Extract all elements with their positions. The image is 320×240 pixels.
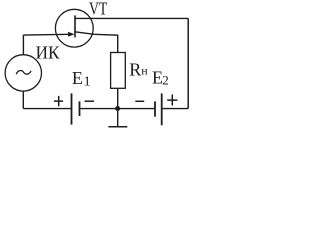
- wire: gate lead from ИК node to VT gate: [23, 33, 69, 36]
- wire: bottom rail left segment: [23, 108, 70, 110]
- wire: bottom rail right segment: [163, 108, 189, 110]
- gate arrowhead: [68, 32, 74, 37]
- ground lead: [117, 109, 119, 127]
- battery E2 long positive plate: [161, 93, 163, 125]
- svg-text:R: R: [129, 60, 141, 80]
- transistor VT drain wire / top rail: [75, 17, 188, 19]
- svg-text:VT: VT: [89, 0, 107, 18]
- wire: bottom rail middle segment: [80, 108, 154, 110]
- wire: left branch upper (gate corner down to source top): [22, 35, 24, 55]
- AC source tilde: [16, 71, 31, 75]
- transistor VT channel bar: [74, 15, 76, 37]
- wire: left branch lower (source bottom to bottom rail): [22, 91, 24, 109]
- plus sign of E2: [167, 95, 177, 106]
- wire: right rail: [187, 18, 189, 108]
- battery E1 short negative plate: [79, 101, 81, 116]
- plus sign of E1: [54, 96, 63, 106]
- battery E1 long positive plate: [71, 93, 73, 124]
- AC source ИК body circle: [5, 55, 41, 91]
- svg-text:н: н: [141, 64, 148, 78]
- minus sign of E1: [85, 100, 94, 102]
- svg-text:1: 1: [84, 74, 91, 89]
- svg-text:ИК: ИК: [36, 43, 61, 63]
- junction dot at ground node: [115, 106, 120, 111]
- transistor VT source wire to resistor: [75, 32, 118, 53]
- resistor Rн body: [111, 53, 126, 89]
- transistor VT body circle: [55, 9, 93, 47]
- resistor Rн bottom lead: [117, 88, 119, 108]
- ground bar: [108, 126, 127, 128]
- minus sign of E2: [135, 100, 144, 102]
- svg-text:2: 2: [162, 73, 169, 88]
- battery E2 short negative plate: [154, 101, 156, 116]
- svg-text:E: E: [72, 68, 83, 88]
